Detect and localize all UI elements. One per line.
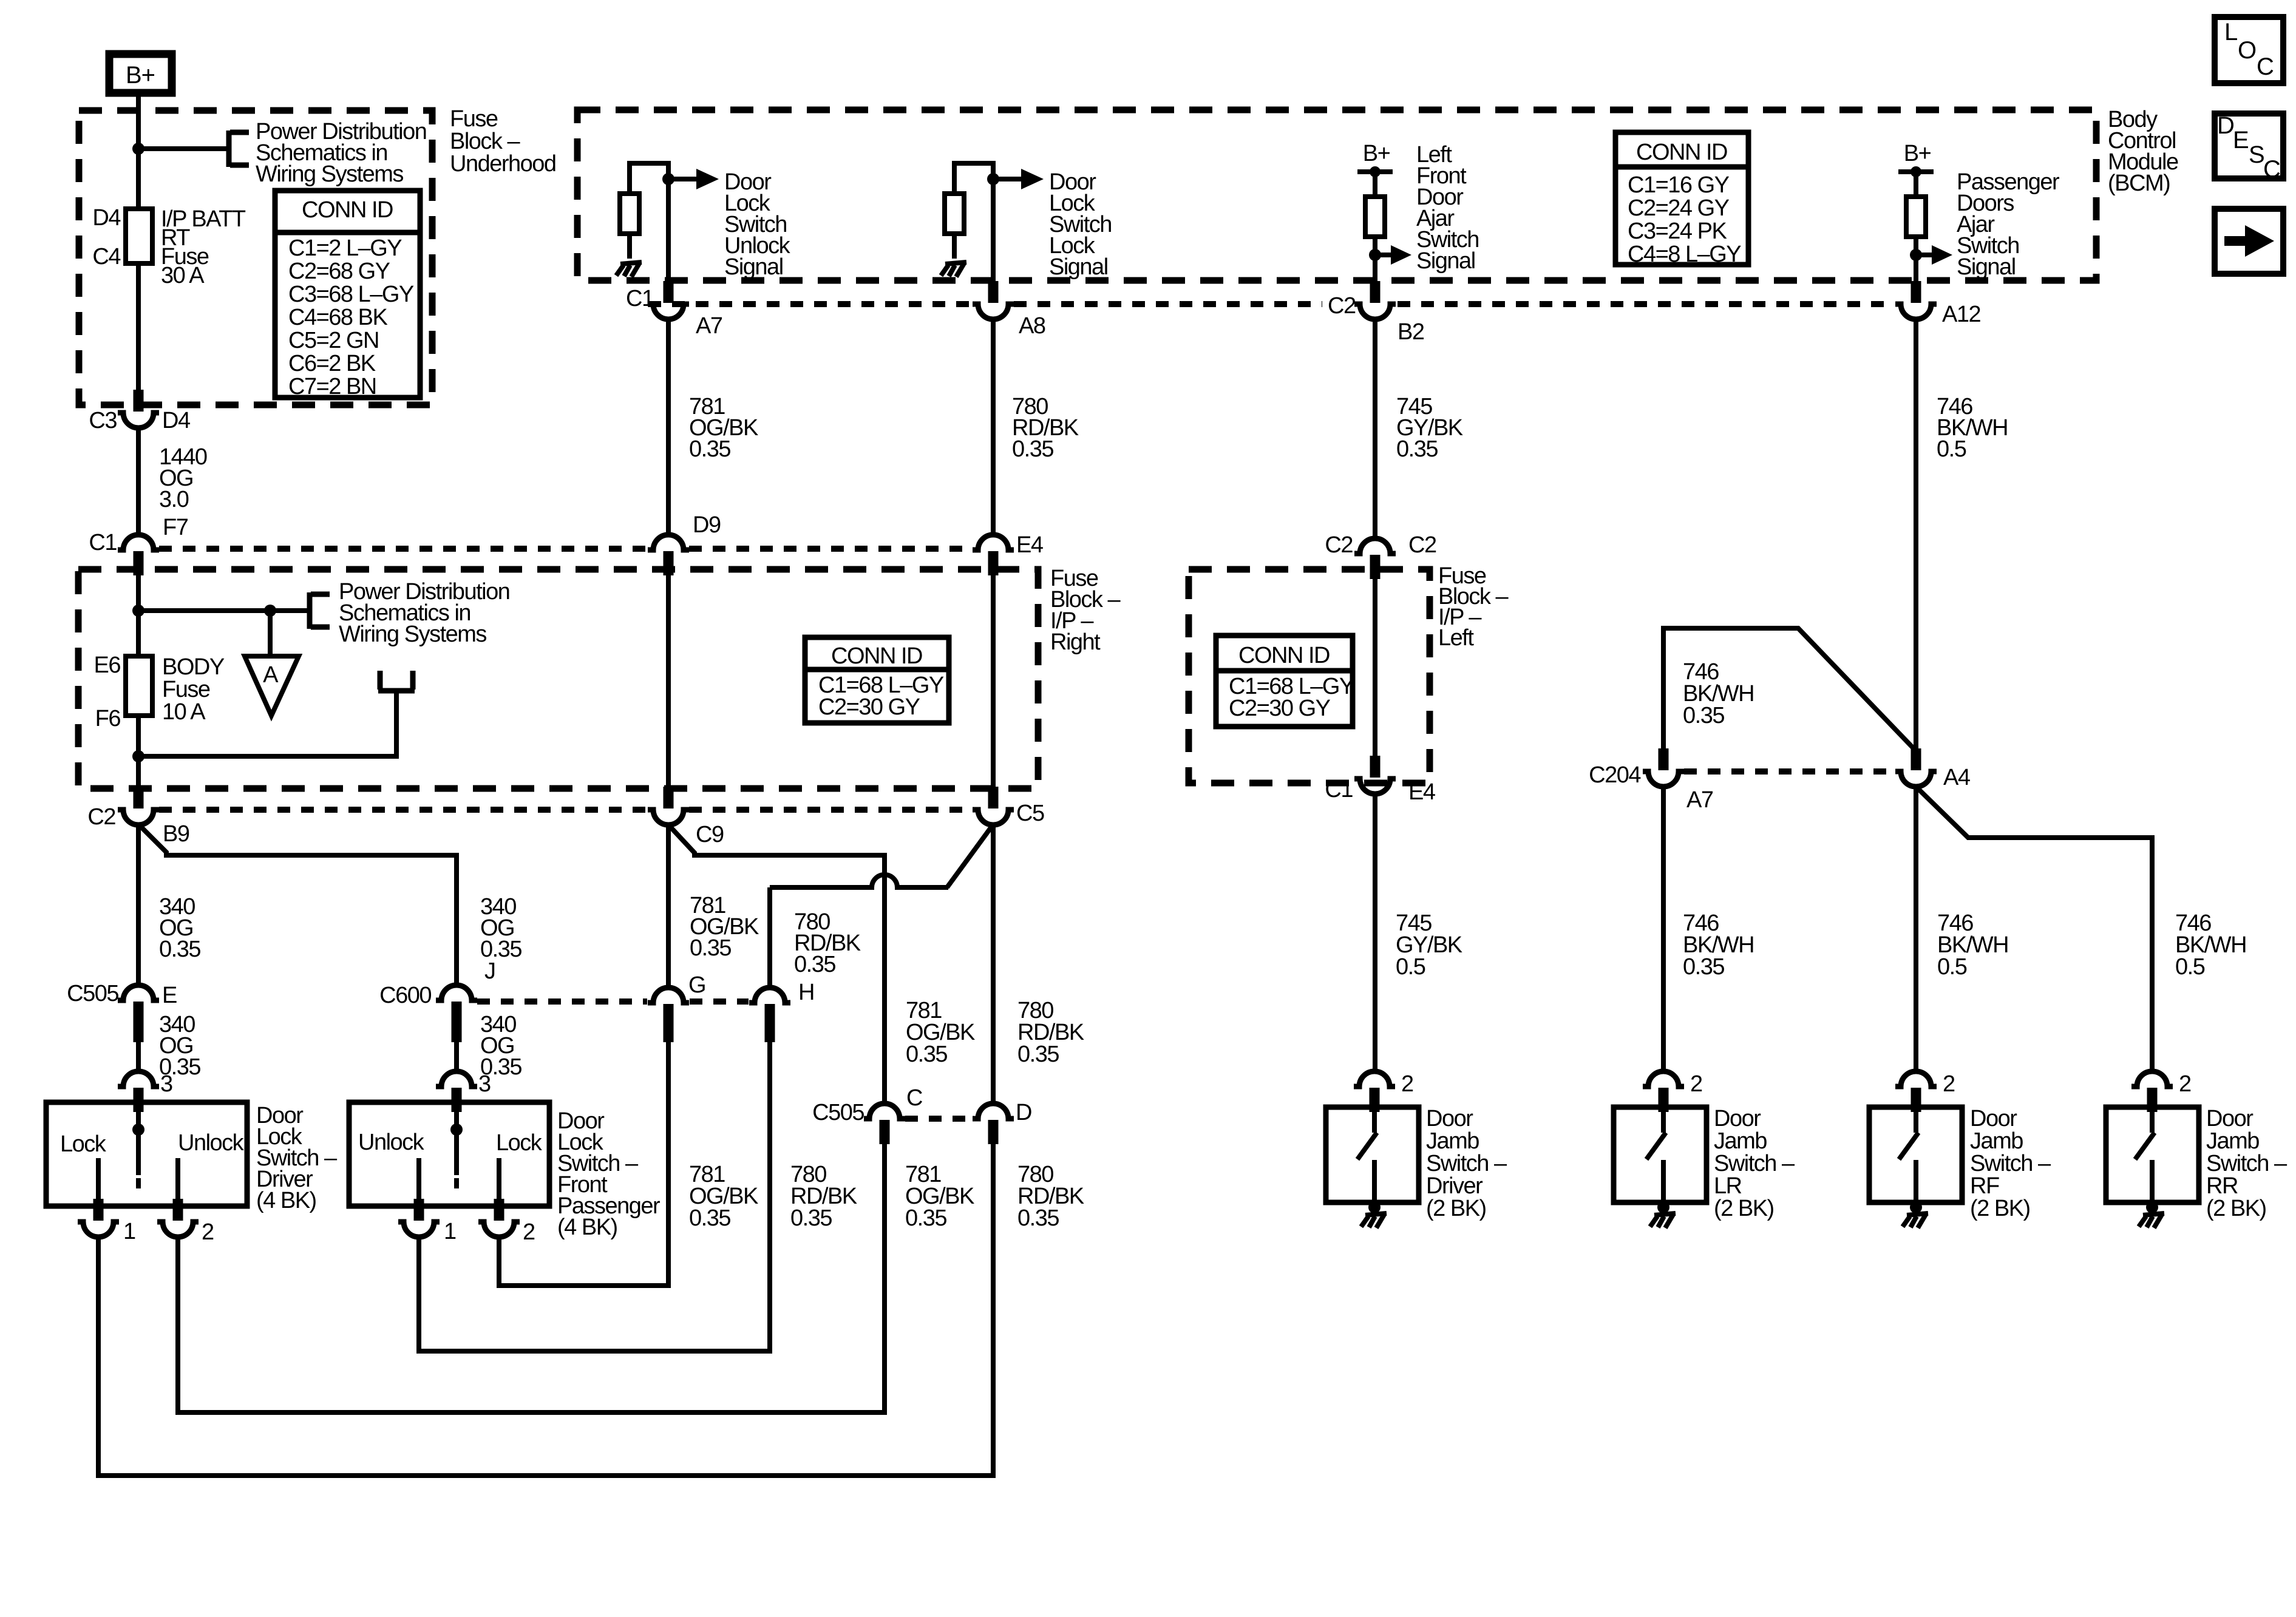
svg-text:C4: C4 — [92, 244, 121, 269]
CONN ID table BCM — [1615, 132, 1748, 267]
fuse I/P BATT RT 30A — [126, 209, 152, 263]
svg-text:C505: C505 — [812, 1100, 864, 1125]
connector C1 pin E4 (I/P left) — [1354, 756, 1396, 794]
wire resistor to B2 — [1373, 237, 1377, 282]
jamb switch glyph LR — [1646, 1088, 1666, 1202]
wire 745 GY/BK to driver jamb — [1373, 794, 1377, 1071]
wire H vertical — [767, 887, 772, 988]
switch common pole driver — [136, 1088, 141, 1175]
svg-text:A7: A7 — [1686, 787, 1713, 813]
svg-text:F7: F7 — [163, 515, 188, 540]
connector pin 2 driver — [157, 1199, 199, 1237]
connector C204 pin A7 — [1643, 748, 1684, 787]
ground RR jamb — [2146, 1201, 2158, 1213]
ground (BCM unlock) — [616, 262, 642, 277]
wire H horizontal with hop — [770, 875, 948, 887]
svg-text:C1: C1 — [89, 530, 117, 555]
wire D9 to C9 — [666, 574, 671, 788]
wire C5 diagonal to H wire — [947, 826, 992, 887]
connector row C1 BCM dotted — [648, 301, 1895, 307]
svg-text:J: J — [484, 958, 495, 984]
svg-text:1: 1 — [444, 1219, 456, 1244]
svg-text:C3: C3 — [89, 408, 117, 433]
wiring systems reference bracket — [229, 131, 249, 167]
svg-text:C1=16 GYC2=24 GYC3=24 PKC4=8 L: C1=16 GYC2=24 GYC3=24 PKC4=8 L–GY — [1628, 172, 1741, 267]
Door Lock Switch Front Passenger box — [349, 1102, 549, 1206]
connector pin 2 driver jamb — [1354, 1071, 1395, 1112]
wire E4 to C5 — [991, 574, 996, 788]
svg-text:B2: B2 — [1398, 319, 1424, 345]
switch common pole passenger — [454, 1088, 459, 1175]
svg-text:Lock: Lock — [60, 1131, 107, 1157]
connector pin A8 — [973, 281, 1014, 319]
svg-text:A4: A4 — [1943, 765, 1971, 790]
connector pin H — [749, 988, 790, 1028]
resistor unlock pull — [620, 194, 639, 234]
CONN ID table I/P left — [1216, 636, 1354, 727]
junction node — [987, 173, 999, 185]
connector pin 1 driver — [78, 1199, 119, 1237]
unlock contact passenger — [416, 1158, 421, 1206]
connector pin 1 passenger — [398, 1199, 440, 1237]
svg-text:C2: C2 — [1325, 532, 1353, 558]
wire C5 to D — [991, 825, 996, 1103]
connector pin 2 passenger — [478, 1199, 520, 1237]
wire 780 RD/BK upper — [991, 319, 996, 535]
junction node — [132, 605, 144, 617]
connector C5 — [973, 787, 1014, 825]
wire A4 branch to RR jamb — [1917, 787, 2152, 1071]
svg-text:E6: E6 — [94, 653, 121, 678]
signal arrow unlock — [668, 169, 719, 189]
connector pin 2 LR jamb — [1643, 1071, 1684, 1112]
wire resistor to A12 — [1914, 237, 1918, 282]
svg-text:CONN ID: CONN ID — [1238, 643, 1330, 668]
Fuse Block I/P Left dashed box — [1189, 569, 1430, 783]
wire B+ to resistor — [1373, 172, 1377, 197]
svg-text:A7: A7 — [696, 313, 722, 339]
svg-text:C9: C9 — [696, 822, 724, 847]
junction node — [1369, 249, 1381, 261]
wire B+ to resistor — [1914, 172, 1918, 197]
wire to ground triangle A — [268, 611, 273, 656]
wire 1440 OG — [136, 428, 141, 534]
svg-text:1: 1 — [123, 1219, 135, 1244]
connector row C204 dotted — [1684, 768, 1895, 775]
wire to reference bracket — [138, 608, 308, 613]
svg-text:D: D — [2217, 112, 2234, 139]
connector pin 3 passenger — [436, 1071, 477, 1112]
svg-text:C1: C1 — [1325, 777, 1353, 802]
junction node on B+ feed — [132, 143, 144, 155]
wire A4 to RF jamb — [1914, 787, 1918, 1071]
jamb switch glyph driver — [1357, 1088, 1377, 1202]
svg-text:CONN ID: CONN ID — [831, 643, 922, 669]
wire B9 branch diagonal — [140, 825, 457, 985]
connector pin A4 — [1895, 748, 1937, 787]
svg-text:D: D — [1016, 1100, 1031, 1125]
svg-text:C5: C5 — [1016, 801, 1044, 826]
svg-text:F6: F6 — [95, 706, 121, 731]
junction node for ground A branch — [264, 605, 276, 617]
battery terminal B+ box — [109, 54, 172, 93]
connector pin G — [648, 988, 689, 1028]
svg-text:C2: C2 — [1408, 532, 1436, 558]
svg-text:C600: C600 — [379, 983, 431, 1008]
unlock contact driver — [175, 1158, 180, 1206]
junction node — [662, 173, 674, 185]
wire C9 to G — [666, 825, 671, 988]
ground RF jamb — [1910, 1201, 1922, 1213]
resistor left ajar — [1365, 197, 1385, 237]
svg-text:H: H — [798, 980, 814, 1005]
wire J to pin3 passenger — [454, 1042, 459, 1071]
wire D down to driver pin1 — [98, 1144, 993, 1476]
resistor passenger ajar — [1906, 197, 1926, 237]
DESC legend box — [2215, 112, 2283, 183]
Fuse Block Underhood dashed box — [79, 110, 432, 405]
wire C1 bar to BODY fuse — [136, 573, 141, 656]
LOC legend box — [2215, 17, 2283, 83]
connector C505 pin D — [973, 1103, 1014, 1144]
junction node — [132, 750, 144, 762]
svg-text:C2: C2 — [1328, 293, 1356, 319]
lock contact passenger — [497, 1158, 501, 1206]
Fuse Block I/P Right dashed box — [78, 569, 1038, 788]
svg-text:L: L — [2224, 19, 2237, 46]
svg-text:E: E — [162, 983, 177, 1008]
signal arrow left ajar — [1375, 245, 1411, 265]
B+ terminal passenger ajar — [1898, 166, 1934, 177]
svg-text:E: E — [2233, 127, 2249, 154]
svg-text:A: A — [263, 662, 279, 688]
svg-text:C: C — [2263, 156, 2280, 183]
wire fuse to connector C3 — [136, 263, 141, 390]
fuse BODY 10A — [126, 656, 152, 716]
Door Jamb Switch RR box — [2106, 1107, 2199, 1202]
BCM unlock signal branch wires — [630, 163, 668, 282]
ground triangle A — [245, 656, 299, 716]
wiring systems reference bracket — [310, 592, 330, 629]
svg-text:D4: D4 — [162, 408, 191, 433]
connector pin A12 — [1895, 281, 1937, 319]
connector row C600 dotted — [477, 998, 749, 1005]
connector C1 pin A7 — [648, 281, 689, 319]
wire to power distribution reference — [138, 146, 228, 151]
svg-text:2: 2 — [1401, 1071, 1413, 1097]
wire 745 GY/BK upper — [1373, 319, 1377, 538]
svg-text:B+: B+ — [126, 62, 155, 89]
lock contact driver — [96, 1158, 101, 1206]
connector pin 2 RF jamb — [1895, 1071, 1937, 1112]
svg-text:C1: C1 — [626, 286, 654, 311]
wire through I/P left — [1373, 578, 1377, 756]
svg-text:O: O — [2238, 37, 2256, 64]
svg-text:S: S — [2249, 141, 2264, 168]
connector C2/C2 I/P left — [1354, 538, 1396, 579]
Door Jamb Switch RF box — [1869, 1107, 1962, 1202]
wire G down to passenger pin2 — [499, 1042, 668, 1286]
connector C505 pin E — [118, 985, 159, 1026]
svg-text:3: 3 — [160, 1071, 172, 1097]
CONN ID table underhood — [275, 191, 420, 399]
svg-text:E4: E4 — [1408, 779, 1436, 805]
arrow legend box — [2215, 209, 2283, 274]
svg-text:Unlock: Unlock — [178, 1130, 245, 1156]
Door Jamb Switch Driver box — [1326, 1107, 1419, 1202]
jamb switch glyph RF — [1899, 1088, 1918, 1202]
CONN ID table I/P right — [805, 637, 949, 723]
svg-text:C204: C204 — [1589, 762, 1641, 788]
ground (BCM lock) — [941, 262, 966, 277]
svg-text:B+: B+ — [1363, 141, 1390, 166]
connector C1 pin F7 — [118, 535, 159, 575]
Door Lock Switch Driver box — [46, 1102, 247, 1206]
svg-text:C: C — [2257, 53, 2274, 80]
jamb switch glyph RR — [2135, 1088, 2155, 1202]
connector C3 pin D4 — [118, 390, 159, 428]
svg-text:2: 2 — [523, 1219, 535, 1245]
svg-text:C2: C2 — [87, 804, 115, 830]
wire 781 OG/BK upper — [666, 319, 671, 535]
svg-text:C505: C505 — [67, 981, 118, 1006]
signal arrow passenger ajar — [1916, 245, 1952, 265]
connector C600 pin J — [436, 985, 477, 1026]
signal arrow lock — [993, 169, 1044, 189]
svg-text:2: 2 — [1943, 1071, 1955, 1097]
svg-text:D9: D9 — [693, 512, 721, 538]
connector C505 pin C — [864, 1103, 905, 1144]
svg-text:E4: E4 — [1016, 532, 1044, 558]
svg-text:G: G — [688, 972, 705, 998]
svg-text:3: 3 — [478, 1071, 491, 1097]
svg-text:CONN ID: CONN ID — [302, 197, 393, 223]
resistor lock pull — [945, 194, 964, 234]
wire 340 OG driver — [136, 825, 141, 985]
svg-text:CONN ID: CONN ID — [1636, 140, 1727, 165]
wire C down to driver pin2 — [178, 1144, 885, 1412]
svg-text:B9: B9 — [163, 821, 189, 847]
svg-text:2: 2 — [202, 1219, 214, 1245]
junction node — [1910, 249, 1922, 261]
wire H down to passenger pin1 — [419, 1042, 770, 1351]
Door Jamb Switch LR box — [1614, 1107, 1707, 1202]
connector pin E4 — [973, 535, 1014, 575]
svg-text:Unlock: Unlock — [358, 1130, 425, 1155]
wire 746 BK/WH upper — [1914, 319, 1918, 748]
svg-text:2: 2 — [2179, 1071, 2191, 1097]
ground LR jamb — [1657, 1201, 1669, 1213]
B+ terminal left ajar — [1357, 166, 1393, 177]
BCM lock signal branch wires — [954, 163, 993, 282]
connector row C505 dotted — [905, 1116, 973, 1122]
connector pin 3 driver — [118, 1071, 159, 1112]
connector pin 2 RR jamb — [2131, 1071, 2173, 1112]
wire BODY fuse down — [136, 716, 141, 788]
wire C204 to LR jamb — [1661, 787, 1666, 1071]
wire B+ to fuse D4 — [136, 95, 141, 209]
connector C9 — [648, 787, 689, 825]
Body Control Module dashed box — [577, 110, 2096, 280]
wire E to pin3 driver — [136, 1042, 141, 1071]
connector row C1 dotted (I/P right) — [159, 546, 972, 552]
svg-text:C: C — [906, 1085, 922, 1111]
wire loop to lower reference — [138, 692, 396, 756]
wire C9 branch to C505 C — [670, 826, 885, 1103]
connector C2 pin B9 — [118, 787, 159, 825]
svg-text:B+: B+ — [1904, 141, 1931, 166]
ground driver jamb — [1368, 1201, 1381, 1213]
connector pin D9 — [648, 535, 689, 575]
svg-text:A12: A12 — [1942, 302, 1980, 327]
svg-text:Lock: Lock — [496, 1130, 543, 1156]
svg-text:A8: A8 — [1019, 313, 1045, 339]
wire branch to C204 — [1663, 628, 1915, 750]
connector C2 pin B2 — [1354, 281, 1396, 319]
svg-text:D4: D4 — [92, 205, 121, 231]
connector row C2 dotted (I/P right) — [159, 807, 972, 813]
wiring systems reference bracket (rotated) — [378, 671, 415, 691]
svg-text:2: 2 — [1690, 1071, 1702, 1097]
